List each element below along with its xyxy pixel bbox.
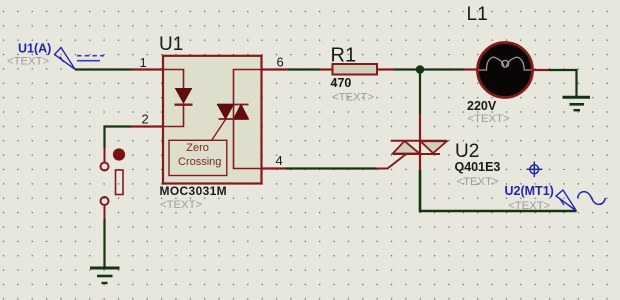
svg-text:1: 1 xyxy=(140,55,147,70)
wire: lamp to right ground xyxy=(549,70,577,96)
label U1 xyxy=(159,34,183,55)
label R1 xyxy=(331,44,357,66)
svg-text:U2(MT1): U2(MT1) xyxy=(505,184,554,198)
wire: input terminal to U1 pin 1 xyxy=(75,68,131,70)
pin number 2 xyxy=(142,112,149,127)
label <TEXT> R1 xyxy=(332,92,374,104)
svg-text:Crossing: Crossing xyxy=(178,156,221,168)
label U1(A) xyxy=(18,42,51,56)
label <TEXT> U1 xyxy=(160,199,202,211)
resistor R1 xyxy=(320,64,394,75)
label <TEXT> U2 xyxy=(457,176,499,188)
label <TEXT> output xyxy=(508,200,550,212)
svg-text:<TEXT>: <TEXT> xyxy=(7,56,49,68)
svg-text:220V: 220V xyxy=(467,99,497,113)
pin number 1 xyxy=(140,55,147,70)
svg-text:U1: U1 xyxy=(159,34,183,55)
label 220V xyxy=(467,99,497,113)
U1 pin 2 stub xyxy=(131,125,163,127)
pin number 4 xyxy=(276,153,283,168)
U1 internal LED branch xyxy=(163,70,193,127)
lamp L1 xyxy=(463,43,549,98)
svg-text:<TEXT>: <TEXT> xyxy=(508,200,550,212)
svg-text:<TEXT>: <TEXT> xyxy=(468,113,510,125)
label <TEXT> input xyxy=(7,56,49,68)
U1 pin 6 stub xyxy=(262,68,289,70)
svg-text:U2: U2 xyxy=(455,141,479,162)
U1 pin 4 stub xyxy=(262,167,287,169)
svg-text:U1(A): U1(A) xyxy=(18,42,51,56)
op-coupler U1 MOC3031M body xyxy=(163,56,262,184)
svg-text:4: 4 xyxy=(276,153,283,168)
switch (push button) xyxy=(101,148,125,219)
wire: pin 6 to R1 xyxy=(288,68,320,70)
svg-text:Q401E3: Q401E3 xyxy=(455,160,501,174)
label <TEXT> L1 xyxy=(468,113,510,125)
ground right xyxy=(563,97,591,110)
terminal input U1(A) xyxy=(55,48,105,70)
label L1 xyxy=(467,4,488,25)
wire: U2 MT1 to output terminal xyxy=(420,170,577,211)
svg-text:<TEXT>: <TEXT> xyxy=(457,176,499,188)
terminal output U2(MT1) xyxy=(556,190,606,211)
svg-text:Zero: Zero xyxy=(186,142,209,154)
wire: R1 to lamp xyxy=(394,68,463,70)
wire: switch to ground xyxy=(103,219,105,268)
label 470 xyxy=(331,76,352,90)
svg-text:L1: L1 xyxy=(467,4,488,25)
svg-text:6: 6 xyxy=(277,55,284,70)
svg-text:R1: R1 xyxy=(331,44,357,66)
wire: pin 4 to U2 gate xyxy=(286,167,376,169)
label U2(MT1) xyxy=(505,184,554,198)
svg-text:MOC3031M: MOC3031M xyxy=(160,184,228,198)
pin number 6 xyxy=(277,55,284,70)
label MOC3031M xyxy=(160,184,228,198)
svg-text:470: 470 xyxy=(331,76,352,90)
label U2 xyxy=(455,141,479,162)
svg-text:<TEXT>: <TEXT> xyxy=(332,92,374,104)
label Q401E3 xyxy=(455,160,501,174)
triac U2 xyxy=(376,114,447,170)
svg-text:<TEXT>: <TEXT> xyxy=(160,199,202,211)
origin marker crosshair xyxy=(527,162,543,178)
ground left xyxy=(90,268,120,283)
node junction xyxy=(416,65,425,74)
U1 pin 1 stub xyxy=(131,68,163,70)
svg-text:2: 2 xyxy=(142,112,149,127)
U1 internal triac xyxy=(212,70,262,169)
wire: junction down to U2 xyxy=(419,70,421,115)
wire: U1 pin 2 to switch xyxy=(105,127,132,149)
zero crossing box xyxy=(169,140,227,175)
